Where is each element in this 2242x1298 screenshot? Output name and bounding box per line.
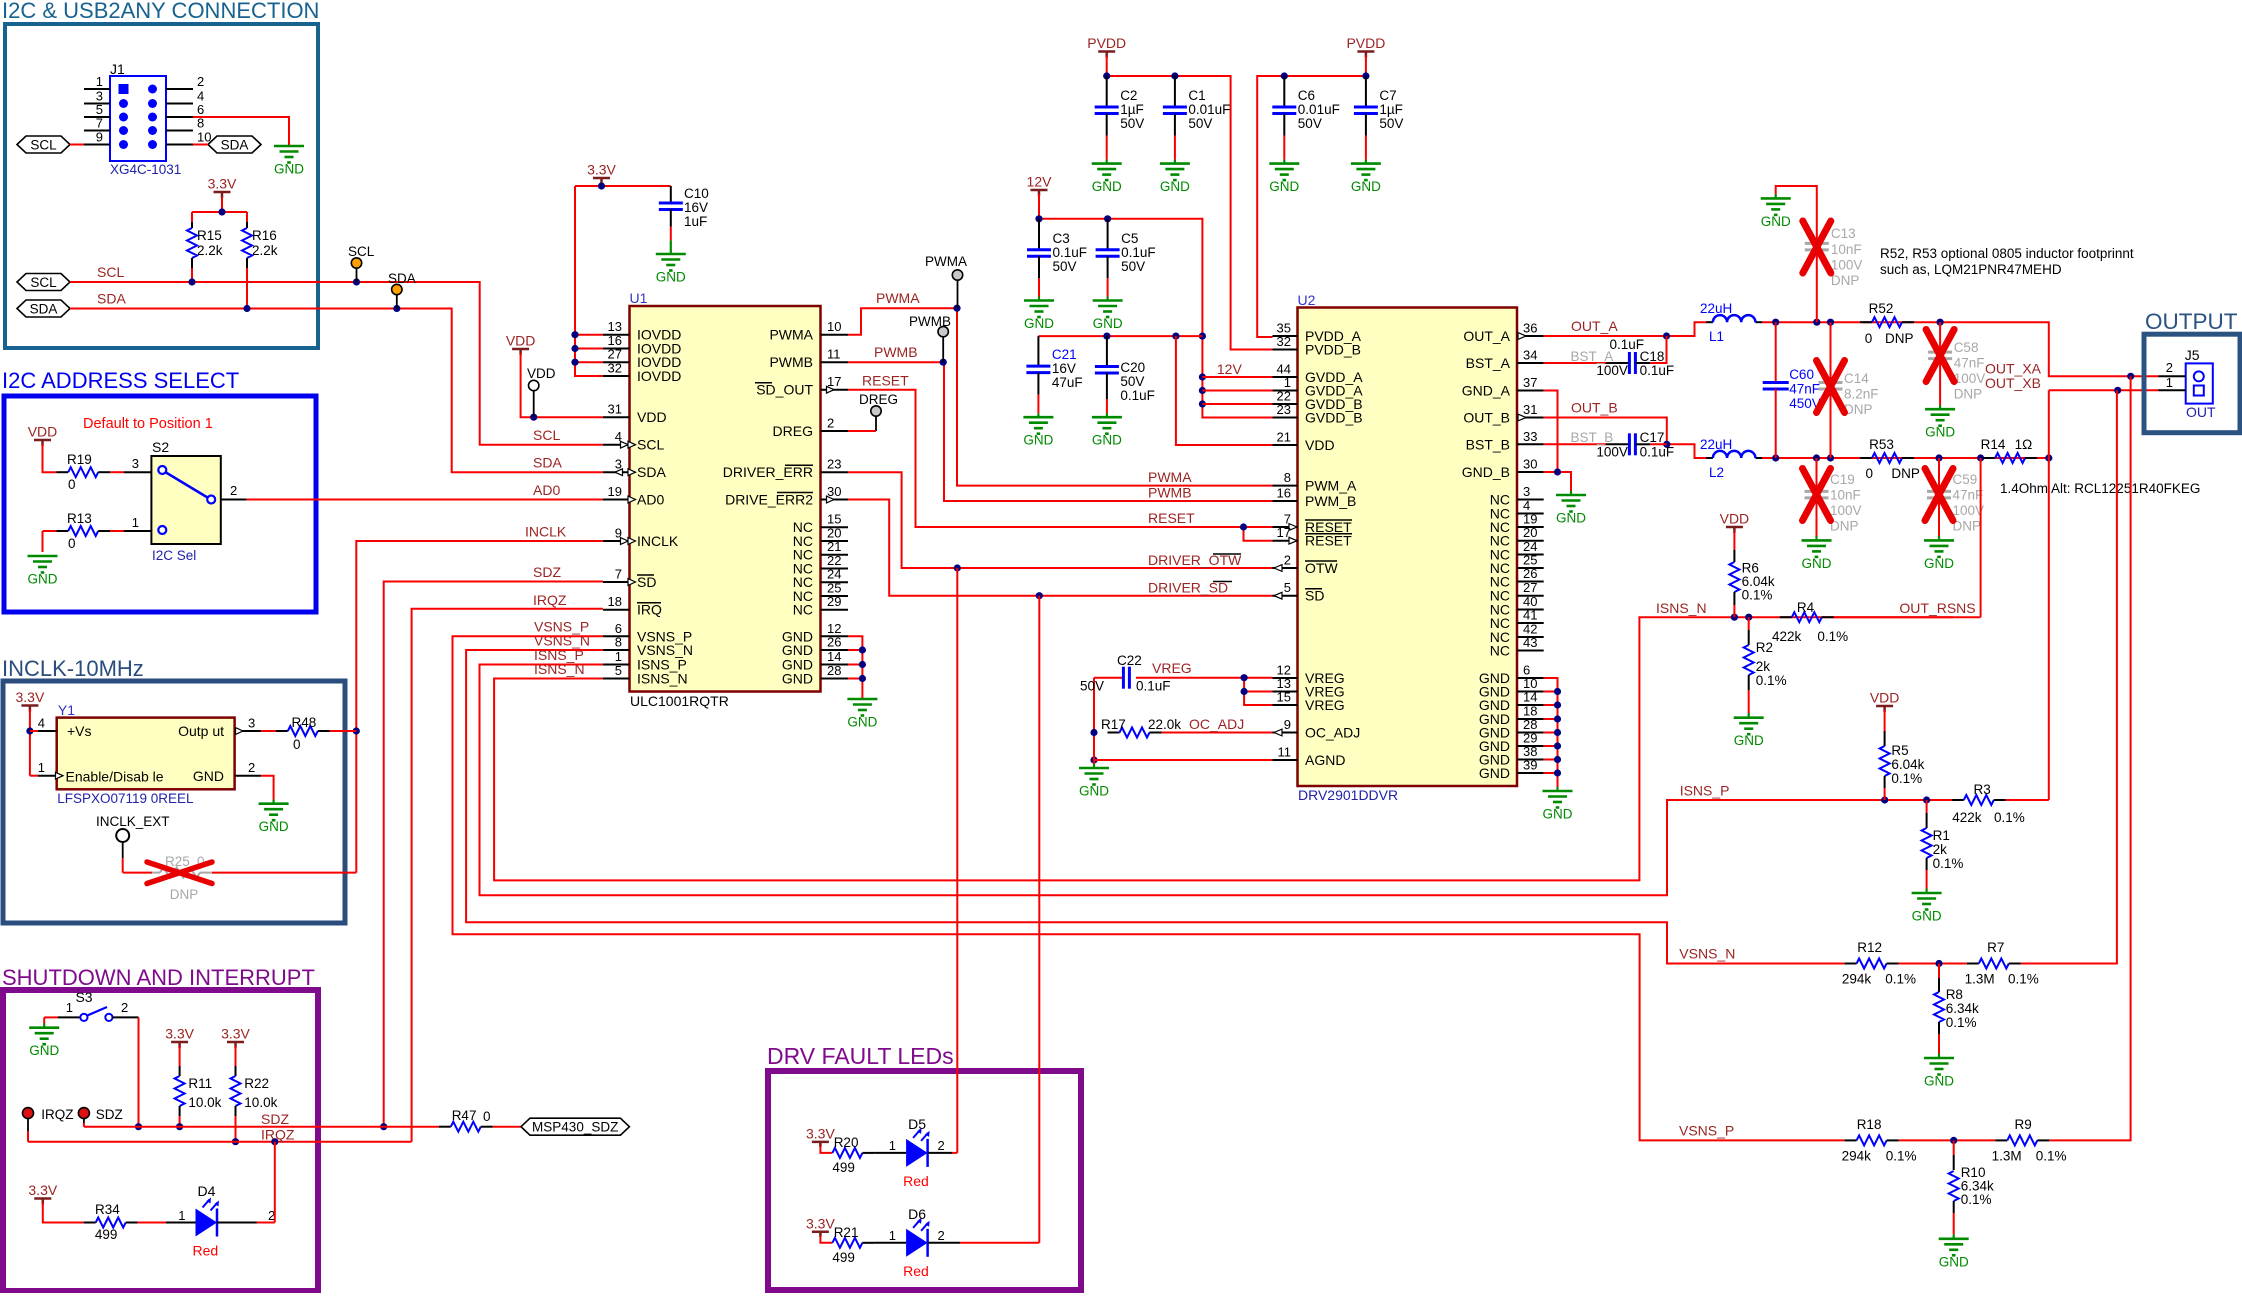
svg-text:6.04k: 6.04k xyxy=(1891,757,1924,772)
svg-text:IOVDD: IOVDD xyxy=(637,368,681,384)
svg-text:Red: Red xyxy=(193,1243,219,1259)
resistor R3 422k 0.1% xyxy=(1952,782,2049,825)
ground (C10) xyxy=(656,254,686,285)
svg-text:1uF: 1uF xyxy=(684,214,707,229)
svg-text:R4: R4 xyxy=(1797,600,1815,615)
svg-text:1.3M: 1.3M xyxy=(1992,1149,2022,1164)
svg-text:2.2k: 2.2k xyxy=(252,243,278,258)
svg-text:GND: GND xyxy=(1160,179,1190,194)
svg-text:3.3V: 3.3V xyxy=(15,689,44,705)
svg-text:L2: L2 xyxy=(1709,465,1724,480)
svg-text:39: 39 xyxy=(1523,758,1537,773)
svg-text:LFSPXO07119 0REEL: LFSPXO07119 0REEL xyxy=(57,791,194,806)
svg-text:3: 3 xyxy=(248,716,255,731)
svg-text:0.1uF: 0.1uF xyxy=(1640,363,1675,378)
svg-text:0.1%: 0.1% xyxy=(1817,629,1848,644)
section box I2C ADDRESS SELECT xyxy=(2,368,316,612)
resistor R4 422k 0.1% xyxy=(1772,600,1848,644)
svg-text:3.3V: 3.3V xyxy=(587,162,616,178)
wire net ISNS_N xyxy=(494,614,1953,881)
svg-text:SDZ: SDZ xyxy=(261,1111,289,1127)
svg-text:10nF: 10nF xyxy=(1830,488,1861,503)
svg-text:1: 1 xyxy=(66,1000,73,1015)
svg-text:R48: R48 xyxy=(292,715,317,730)
svg-text:10.0k: 10.0k xyxy=(244,1095,277,1110)
svg-text:19: 19 xyxy=(608,484,622,499)
svg-text:31: 31 xyxy=(1523,402,1537,417)
svg-text:2: 2 xyxy=(938,1228,945,1243)
svg-text:VREG: VREG xyxy=(1305,697,1345,713)
svg-text:C58: C58 xyxy=(1954,340,1979,355)
svg-text:0.1uF: 0.1uF xyxy=(1640,445,1675,460)
svg-text:VDD: VDD xyxy=(1870,690,1900,706)
svg-text:26: 26 xyxy=(827,635,841,650)
resistor R8 6.34k 0.1% xyxy=(1934,964,1979,1059)
svg-text:R8: R8 xyxy=(1946,987,1963,1002)
svg-text:26: 26 xyxy=(1523,566,1537,581)
svg-text:VDD: VDD xyxy=(527,366,556,381)
net label AD0 (U1) xyxy=(533,482,560,498)
wire net ISNS_P xyxy=(480,665,1952,896)
net label RESET (U1) xyxy=(862,373,909,389)
svg-text:422k: 422k xyxy=(1772,629,1802,644)
oscillator Y1 LFSPXO071190REEL xyxy=(38,702,261,806)
net label PWMA (U2) xyxy=(1148,469,1192,485)
svg-text:C14: C14 xyxy=(1844,371,1869,386)
svg-text:GND: GND xyxy=(1024,316,1054,331)
ground (C7) xyxy=(1351,164,1381,195)
svg-text:OUT: OUT xyxy=(2186,404,2216,420)
power 12V (C3/C5) xyxy=(1027,174,1053,197)
svg-text:NC: NC xyxy=(793,602,813,618)
svg-text:DNP: DNP xyxy=(1844,402,1873,417)
svg-text:2: 2 xyxy=(2166,360,2173,375)
svg-text:294k: 294k xyxy=(1842,972,1872,987)
svg-text:OUT_A: OUT_A xyxy=(1571,318,1618,334)
net label OUT_A xyxy=(1571,318,1618,334)
test point SCL xyxy=(348,244,375,282)
svg-text:SDZ: SDZ xyxy=(533,564,561,580)
svg-text:GND: GND xyxy=(1761,214,1791,229)
wire net SDZ (bottom) xyxy=(84,1126,439,1128)
svg-text:OUT_B: OUT_B xyxy=(1571,400,1618,416)
capacitor C10 1uF 16V xyxy=(659,186,709,254)
ground (C19) xyxy=(1802,540,1832,571)
wire net INCLK xyxy=(353,541,603,873)
svg-text:GND: GND xyxy=(1023,433,1053,448)
svg-text:BST_A: BST_A xyxy=(1571,349,1614,364)
svg-text:C10: C10 xyxy=(684,186,709,201)
resistor R10 6.34k 0.1% xyxy=(1949,1140,1994,1238)
svg-text:100V: 100V xyxy=(1953,503,1985,518)
svg-text:50V: 50V xyxy=(1379,116,1403,131)
resistor R7 1.3M 0.1% xyxy=(1965,940,2039,987)
section box SHUTDOWN AND INTERRUPT xyxy=(2,965,318,1291)
wire net RESET xyxy=(848,390,1273,541)
ground (U2 GND_B) xyxy=(1556,495,1586,526)
net label ISNS_P xyxy=(1680,783,1730,799)
svg-text:U1: U1 xyxy=(630,290,648,306)
wire U2 right GND pins xyxy=(1544,678,1561,791)
capacitor C6 0.01uF 50V xyxy=(1272,76,1340,164)
svg-text:11: 11 xyxy=(1278,745,1292,760)
svg-text:0.1uF: 0.1uF xyxy=(1120,388,1155,403)
svg-text:AD0: AD0 xyxy=(533,482,560,498)
svg-text:R34: R34 xyxy=(95,1202,120,1217)
svg-text:OC_ADJ: OC_ADJ xyxy=(1305,725,1360,741)
wire net IRQZ (bottom) xyxy=(28,1138,412,1145)
power 3.3V (U1/C10) xyxy=(587,162,616,184)
wire D4 to IRQZ xyxy=(274,1142,276,1223)
svg-text:SDA: SDA xyxy=(637,464,666,480)
resistor R1 2k 0.1% xyxy=(1922,800,1964,893)
capacitor C1 0.01uF 50V xyxy=(1163,76,1231,164)
svg-text:INCLK: INCLK xyxy=(637,533,679,549)
inductor L1 22uH xyxy=(1700,301,1762,344)
svg-text:1.4Ohm Alt: RCL12251R40FKEG: 1.4Ohm Alt: RCL12251R40FKEG xyxy=(2000,481,2200,496)
svg-text:47nF: 47nF xyxy=(1953,488,1984,503)
svg-text:GND: GND xyxy=(1925,425,1955,440)
power 3.3V (D4) xyxy=(28,1182,57,1205)
svg-text:SDA: SDA xyxy=(388,271,416,286)
svg-text:GVDD_B: GVDD_B xyxy=(1305,410,1363,426)
resistor R11 10.0k xyxy=(175,1046,222,1130)
svg-text:DRV2901DDVR: DRV2901DDVR xyxy=(1298,787,1398,803)
net label VSNS_P xyxy=(1679,1122,1734,1138)
svg-text:AD0: AD0 xyxy=(637,492,664,508)
wire VDD to R19 xyxy=(43,444,57,472)
resistor R22 10.0k xyxy=(231,1046,278,1145)
svg-text:0.1%: 0.1% xyxy=(1994,810,2025,825)
svg-text:Red: Red xyxy=(903,1263,929,1279)
section box INCLK-10MHz xyxy=(2,656,345,923)
svg-text:VDD: VDD xyxy=(1305,437,1335,453)
port SDA (to bus) xyxy=(17,300,70,317)
wire U1 GND pins to ground xyxy=(848,636,866,699)
wire S3 to ground xyxy=(43,1017,45,1027)
capacitor C17 0.1uF 100V (BST_B) xyxy=(1544,430,1674,460)
svg-text:GND_B: GND_B xyxy=(1462,464,1510,480)
power 3.3V (I2C pullups) xyxy=(208,176,237,199)
svg-text:SDA: SDA xyxy=(533,455,562,471)
svg-text:422k: 422k xyxy=(1952,810,1982,825)
ground (Y1) xyxy=(259,804,289,835)
wire net PWMB xyxy=(848,359,1273,501)
svg-text:16V: 16V xyxy=(684,200,708,215)
wire net SDA xyxy=(70,305,603,472)
svg-text:R22: R22 xyxy=(244,1076,269,1091)
svg-text:SCL: SCL xyxy=(637,437,664,453)
ground (R1) xyxy=(1912,893,1942,924)
test point SDA xyxy=(388,271,416,309)
resistor R2 2k 0.1% xyxy=(1744,617,1787,718)
svg-text:SD: SD xyxy=(1305,588,1324,604)
wire PVDD bus 1 xyxy=(1103,56,1272,350)
svg-text:DREG: DREG xyxy=(773,423,813,439)
svg-text:DRIVER_ERR: DRIVER_ERR xyxy=(723,464,813,480)
svg-text:3.3V: 3.3V xyxy=(165,1026,194,1042)
svg-text:C59: C59 xyxy=(1953,472,1978,487)
wire net IRQZ (U1 IRQ to bottom) xyxy=(412,609,603,1142)
svg-text:SCL: SCL xyxy=(533,427,560,443)
svg-text:2: 2 xyxy=(121,1000,128,1015)
svg-text:22uH: 22uH xyxy=(1700,437,1732,452)
capacitor C59 47nF 100V DNP xyxy=(1925,458,1984,540)
ground (R2) xyxy=(1734,718,1764,749)
svg-text:DRIVE_ERR2: DRIVE_ERR2 xyxy=(725,492,813,508)
svg-text:12V: 12V xyxy=(1027,174,1053,190)
svg-text:3.3V: 3.3V xyxy=(806,1125,835,1141)
wire 3.3V / IOVDD rail xyxy=(571,182,670,376)
power 3.3V (D5) xyxy=(806,1125,835,1147)
svg-text:3: 3 xyxy=(132,456,139,471)
svg-text:DNP: DNP xyxy=(1953,519,1982,534)
svg-text:INCLK: INCLK xyxy=(525,524,567,540)
svg-text:15: 15 xyxy=(827,512,841,527)
capacitor C19 10nF 100V DNP xyxy=(1803,458,1862,540)
svg-text:GND: GND xyxy=(1802,556,1832,571)
svg-text:50V: 50V xyxy=(1053,259,1077,274)
svg-text:MSP430_SDZ: MSP430_SDZ xyxy=(532,1120,618,1135)
svg-text:GND: GND xyxy=(1093,316,1123,331)
svg-text:47uF: 47uF xyxy=(1052,375,1083,390)
svg-text:SCL: SCL xyxy=(97,264,124,280)
svg-text:Outp ut: Outp ut xyxy=(178,723,224,739)
svg-text:3.3V: 3.3V xyxy=(28,1182,57,1198)
svg-text:I2C & USB2ANY CONNECTION: I2C & USB2ANY CONNECTION xyxy=(2,0,319,23)
svg-text:D4: D4 xyxy=(198,1183,216,1199)
section box DRV FAULT LEDs xyxy=(767,1043,1081,1290)
svg-text:2: 2 xyxy=(827,416,834,431)
port SDA (J1 pin 10) xyxy=(208,136,261,153)
svg-text:C17: C17 xyxy=(1640,430,1665,445)
ground (C6) xyxy=(1269,164,1299,195)
test point IRQZ xyxy=(23,1107,74,1142)
svg-text:SDA: SDA xyxy=(30,302,58,317)
svg-text:0: 0 xyxy=(68,477,76,492)
svg-text:PWMA: PWMA xyxy=(925,254,967,269)
svg-text:R7: R7 xyxy=(1987,940,2004,955)
net label DRIVER_SD xyxy=(1148,580,1232,596)
svg-text:GND: GND xyxy=(1079,784,1109,799)
ground (C13) xyxy=(1761,198,1791,229)
svg-text:31: 31 xyxy=(608,402,622,417)
wire net VSNS_P xyxy=(453,376,2131,1144)
svg-text:3.3V: 3.3V xyxy=(208,176,237,192)
svg-text:R3: R3 xyxy=(1974,782,1991,797)
svg-text:1: 1 xyxy=(615,649,622,664)
svg-text:C20: C20 xyxy=(1120,360,1145,375)
svg-text:1.3M: 1.3M xyxy=(1965,972,1995,987)
svg-text:23: 23 xyxy=(1277,402,1291,417)
wire 12V cap bus (C21/C20/VDD) xyxy=(1038,333,1272,446)
svg-text:13: 13 xyxy=(608,319,622,334)
power VDD (R6) xyxy=(1720,511,1750,534)
svg-text:GND: GND xyxy=(1924,556,1954,571)
svg-text:28: 28 xyxy=(827,663,841,678)
svg-text:INCLK-10MHz: INCLK-10MHz xyxy=(2,656,144,681)
svg-text:PWMB: PWMB xyxy=(874,344,918,360)
wire net OUT_A xyxy=(1544,319,2159,380)
svg-text:+Vs: +Vs xyxy=(67,723,92,739)
svg-text:D6: D6 xyxy=(908,1206,926,1222)
svg-text:BST_B: BST_B xyxy=(1571,430,1614,445)
svg-text:PWMA: PWMA xyxy=(1148,469,1192,485)
svg-text:14: 14 xyxy=(1523,690,1537,705)
svg-text:3: 3 xyxy=(1523,484,1530,499)
net label 12V (GVDD) xyxy=(1217,361,1243,377)
wire VDD to U1 pin 31 xyxy=(521,353,603,421)
svg-text:9: 9 xyxy=(96,130,103,145)
svg-text:DREG: DREG xyxy=(859,392,898,407)
net label ISNS_P (U1) xyxy=(534,647,584,663)
svg-text:50V: 50V xyxy=(1080,679,1104,694)
svg-text:8: 8 xyxy=(1284,470,1291,485)
power 3.3V (D6) xyxy=(806,1215,835,1237)
svg-text:100V: 100V xyxy=(1831,258,1863,273)
resistor R25 0 DNP xyxy=(123,854,357,902)
svg-text:OC_ADJ: OC_ADJ xyxy=(1189,716,1244,732)
net label PWMB (U2) xyxy=(1148,485,1192,501)
svg-text:R21: R21 xyxy=(834,1225,859,1240)
svg-text:VREG: VREG xyxy=(1152,660,1192,676)
note Default to Position 1 xyxy=(83,416,213,432)
svg-text:GND: GND xyxy=(1479,765,1510,781)
svg-text:499: 499 xyxy=(832,1250,855,1265)
svg-text:SHUTDOWN AND INTERRUPT: SHUTDOWN AND INTERRUPT xyxy=(2,965,315,990)
svg-text:30: 30 xyxy=(1523,457,1537,472)
svg-text:16V: 16V xyxy=(1052,361,1076,376)
svg-text:1: 1 xyxy=(889,1228,896,1243)
svg-text:R2: R2 xyxy=(1756,640,1773,655)
svg-text:100V: 100V xyxy=(1596,363,1628,378)
svg-text:47nF: 47nF xyxy=(1954,356,1985,371)
svg-text:OUT_A: OUT_A xyxy=(1463,328,1510,344)
wire net SCL xyxy=(70,278,603,444)
svg-text:6.34k: 6.34k xyxy=(1946,1001,1979,1016)
net label BST_B xyxy=(1571,430,1614,445)
capacitor C3 0.1uF 50V xyxy=(1027,219,1087,301)
svg-text:PWM_A: PWM_A xyxy=(1305,478,1357,494)
svg-text:5: 5 xyxy=(1284,580,1291,595)
ground (R8) xyxy=(1924,1058,1954,1089)
resistor R21 499 xyxy=(820,1225,874,1265)
svg-text:2k: 2k xyxy=(1756,659,1771,674)
svg-text:D5: D5 xyxy=(908,1116,926,1132)
port MSP430_SDZ xyxy=(521,1118,629,1135)
svg-text:VDD: VDD xyxy=(637,409,667,425)
wire 3.3V to R15/R16 xyxy=(192,197,247,216)
svg-text:GND: GND xyxy=(1939,1254,1969,1269)
test point PWMB xyxy=(909,314,951,362)
svg-text:R15: R15 xyxy=(197,228,222,243)
svg-text:ISNS_N: ISNS_N xyxy=(1656,600,1707,616)
svg-text:OUT_RSNS: OUT_RSNS xyxy=(1899,600,1975,616)
note R52/R53 optional xyxy=(1880,246,2134,277)
capacitor C14 8.2nF DNP xyxy=(1817,322,1879,458)
switch S3 xyxy=(44,989,138,1021)
connector J1 XG4C-1031 xyxy=(84,61,211,177)
svg-text:VSNS_N: VSNS_N xyxy=(1679,946,1735,962)
svg-text:GND: GND xyxy=(656,270,686,285)
wire PVDD bus 2 xyxy=(1257,56,1369,338)
wire S3 to SDZ xyxy=(135,1017,142,1130)
capacitor C13 10nF 100V DNP xyxy=(1776,186,1863,322)
capacitor C2 1uF 50V xyxy=(1095,76,1145,164)
svg-text:0.01uF: 0.01uF xyxy=(1188,102,1230,117)
svg-text:18: 18 xyxy=(608,594,622,609)
svg-text:R19: R19 xyxy=(67,452,92,467)
wire R13 to ground xyxy=(42,531,44,552)
svg-text:S3: S3 xyxy=(75,989,92,1005)
resistor R14 1ohm xyxy=(1981,437,2038,463)
svg-text:I2C ADDRESS SELECT: I2C ADDRESS SELECT xyxy=(2,368,239,393)
svg-text:Red: Red xyxy=(903,1173,929,1189)
svg-text:SD: SD xyxy=(637,574,656,590)
svg-text:DNP: DNP xyxy=(170,887,199,902)
wire SDA to J1 pin 10 xyxy=(193,144,208,146)
svg-text:I2C Sel: I2C Sel xyxy=(152,548,196,563)
capacitor C58 47nF 100V DNP xyxy=(1926,322,1985,409)
net label OC_ADJ xyxy=(1189,716,1244,732)
ground (U1) xyxy=(847,699,877,730)
wire 12V bus xyxy=(1035,194,1315,418)
svg-text:SDA: SDA xyxy=(97,291,126,307)
svg-text:VSNS_P: VSNS_P xyxy=(1679,1122,1734,1138)
ground (C22/AGND) xyxy=(1079,764,1109,799)
svg-text:2: 2 xyxy=(938,1138,945,1153)
wire D5 to DRIVER_OTW xyxy=(956,568,958,1153)
svg-text:2: 2 xyxy=(197,74,204,89)
svg-text:7: 7 xyxy=(615,567,622,582)
svg-text:C1: C1 xyxy=(1188,88,1205,103)
svg-text:PWMB: PWMB xyxy=(1148,485,1192,501)
svg-text:C60: C60 xyxy=(1789,367,1814,382)
svg-text:34: 34 xyxy=(1523,348,1537,363)
net label ISNS_N (U1) xyxy=(534,661,585,677)
wire net PWMA xyxy=(848,305,1273,486)
svg-text:1: 1 xyxy=(2166,375,2173,390)
svg-text:0.1%: 0.1% xyxy=(1933,856,1964,871)
svg-text:S2: S2 xyxy=(152,439,169,455)
svg-text:499: 499 xyxy=(832,1160,855,1175)
svg-text:0: 0 xyxy=(1865,331,1873,346)
svg-text:PVDD_B: PVDD_B xyxy=(1305,342,1361,358)
svg-text:SD_OUT: SD_OUT xyxy=(756,382,813,398)
svg-text:J5: J5 xyxy=(2185,347,2200,363)
svg-text:RESET: RESET xyxy=(1305,533,1352,549)
capacitor C22 0.1uF 50V xyxy=(1080,653,1171,694)
svg-text:ISNS_P: ISNS_P xyxy=(1680,783,1730,799)
net label IRQZ xyxy=(261,1127,295,1143)
svg-text:1: 1 xyxy=(96,74,103,89)
svg-text:VDD: VDD xyxy=(28,424,58,440)
svg-text:22.0k: 22.0k xyxy=(1148,717,1181,732)
LED D6 Red xyxy=(874,1206,1039,1279)
svg-text:0.1%: 0.1% xyxy=(1961,1192,1992,1207)
svg-text:GND: GND xyxy=(1269,179,1299,194)
svg-text:SCL: SCL xyxy=(30,138,57,153)
svg-text:C19: C19 xyxy=(1830,472,1855,487)
svg-text:2: 2 xyxy=(248,760,255,775)
svg-text:C6: C6 xyxy=(1298,88,1315,103)
svg-text:GND: GND xyxy=(1092,179,1122,194)
svg-text:21: 21 xyxy=(1277,430,1291,445)
wire 3.3V to R34 xyxy=(43,1203,84,1223)
wire R4 to OUT_RSNS xyxy=(1834,616,1981,618)
svg-text:R20: R20 xyxy=(834,1135,859,1150)
power PVDD (C2/C1) xyxy=(1087,35,1126,58)
